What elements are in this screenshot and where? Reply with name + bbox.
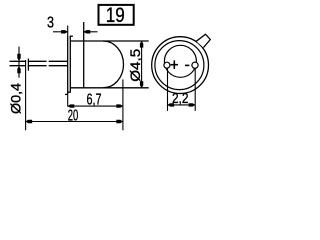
plus polarity mark	[171, 60, 178, 69]
lead L1 (side view wire, drawn with two breaks)	[10, 61, 68, 65]
svg-text:20: 20	[68, 107, 79, 124]
cathode lead dot	[192, 62, 198, 68]
dimension 3 (flange offset)	[47, 15, 98, 34]
dimension Ø0,4 (lead diameter)	[8, 47, 24, 115]
key tab on flange	[196, 34, 210, 47]
svg-text:Ø0,4: Ø0,4	[8, 83, 24, 114]
dimension 6,7 (body length)	[68, 91, 124, 108]
svg-text:19: 19	[106, 3, 125, 27]
extension line A upper (for dimension 3)	[67, 26, 69, 37]
extension line from cathode dot	[194, 62, 196, 111]
extension line right (dome apex, shared by 6,7 and 20)	[122, 79, 124, 130]
LED body outline	[70, 22, 148, 88]
extension line (lead tip, shared with dimension 20)	[25, 60, 27, 130]
front view: middle circle (body)	[155, 41, 204, 90]
dimension Ø4,5 (dome diameter)	[127, 41, 144, 88]
flange of LED package	[65, 36, 73, 95]
break tick 2 on lead	[27, 59, 29, 71]
extension line from anode dot	[167, 63, 169, 111]
svg-text:Ø4,5: Ø4,5	[127, 49, 143, 82]
dimension 2,2 (lead spacing)	[167, 90, 195, 107]
svg-text:6,7: 6,7	[87, 91, 102, 108]
svg-text:3: 3	[47, 15, 54, 32]
front view: inner circle (reflector)	[164, 45, 196, 77]
svg-text:2,2: 2,2	[172, 90, 189, 107]
figure number box 19	[99, 3, 134, 27]
dome of LED (epoxy lens)	[103, 41, 123, 88]
front view: outer circle (flange)	[152, 37, 209, 94]
anode lead dot	[164, 62, 170, 68]
minus polarity mark	[185, 64, 189, 66]
dimension 20 (lead length)	[25, 107, 123, 124]
extension line A lower (for dimension 6,7)	[67, 94, 69, 106]
